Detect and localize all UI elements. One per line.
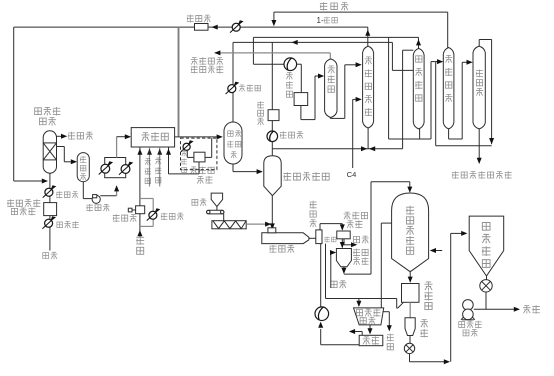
oil absorption column 油吸塔 xyxy=(473,46,485,129)
label 乙烯返回 xyxy=(191,58,198,65)
label 树脂气提器 vertical xyxy=(406,206,414,215)
label 加热器 xyxy=(57,222,63,228)
label 脱水分 xyxy=(344,212,351,219)
label 澄析器 vertical xyxy=(257,101,264,108)
wire low boiler bottoms xyxy=(419,129,421,139)
wire oil column bottoms discharge xyxy=(478,129,480,163)
storage hopper 贮槽 xyxy=(211,193,222,207)
ethylene column 乙烯塔 xyxy=(325,59,337,118)
fines separator 细粒分离器 xyxy=(354,308,384,325)
arrow into purifier xyxy=(212,25,218,30)
comonomer column 共聚单体塔 xyxy=(363,46,374,128)
preheater box with valves xyxy=(105,158,126,178)
screw conveyor with zigzag xyxy=(212,221,246,229)
dryer 干燥器 xyxy=(402,284,420,303)
valve in adsorber box xyxy=(183,143,190,150)
wire dryer to silo xyxy=(409,302,411,318)
label 乙烯塔 vertical xyxy=(328,66,335,74)
wire cooling water outlet xyxy=(57,135,66,137)
label 高位槽 vertical xyxy=(80,156,86,163)
label 高沸物塔 vertical xyxy=(445,55,452,63)
MP flash tank 中压闪蒸罐 xyxy=(224,122,242,164)
wire condenser to junction and LP flash top xyxy=(271,142,273,156)
wire branch into fines separator xyxy=(358,299,360,306)
wire clarifier to condenser xyxy=(271,121,273,131)
air blower 空气鼓风机 xyxy=(463,300,474,311)
low boiler column 低沸物塔 xyxy=(413,48,424,128)
wire branch x=388.6 down to low-boiler bottoms line xyxy=(388,37,390,139)
wire hot water feed xyxy=(330,253,332,289)
purifier box 净化器 xyxy=(195,24,209,31)
wire separator waste arrow xyxy=(343,239,345,245)
pump circle water xyxy=(315,307,329,321)
label 空气鼓 xyxy=(459,322,465,328)
label 废料 vertical xyxy=(387,334,394,342)
label 高沸点杂质排出 xyxy=(452,171,459,179)
wire oil column overhead return riser xyxy=(435,62,437,146)
label 环己烷 xyxy=(320,2,327,10)
dryer chute xyxy=(396,299,398,309)
label 再成 xyxy=(353,249,360,257)
wire solution feed from adsorber xyxy=(168,147,170,174)
label 反应器 xyxy=(141,133,149,141)
label 离器 xyxy=(360,318,366,324)
wire absorber to head tank xyxy=(57,146,65,148)
wire oil column overhead top xyxy=(478,40,480,47)
label 细粒 xyxy=(324,237,329,243)
label 油吸塔 vertical xyxy=(476,70,483,78)
label 冷却器 xyxy=(56,191,62,198)
resin stripper 树脂气提器 xyxy=(392,193,429,271)
wire fines line cutter to dryer chute xyxy=(325,244,327,299)
label 共聚单体塔 vertical xyxy=(365,57,372,65)
label 挤压机 xyxy=(269,245,276,253)
label 切料机 vertical xyxy=(310,201,317,209)
wire cooler to tank xyxy=(297,63,302,65)
label 包装 xyxy=(523,306,531,314)
extruder 挤压机 xyxy=(262,233,309,244)
compressor box 乙烯进料压缩机 xyxy=(44,203,57,216)
dewatering separator 脱水分离器 xyxy=(337,231,350,239)
rotary valve under blending xyxy=(480,280,492,292)
label 活化剂 vertical xyxy=(155,158,161,164)
valve condenser 冷凝器 on MP flash feed xyxy=(228,85,236,93)
label 浆槽 xyxy=(353,258,360,265)
label 乙烯 xyxy=(43,253,49,259)
wire head tank to feed pump xyxy=(82,182,84,199)
label 贮槽 xyxy=(192,199,198,205)
adsorber small box xyxy=(194,152,205,162)
wire activator feed xyxy=(159,147,161,186)
wire separator to reslurry tank xyxy=(341,239,343,248)
label 压缩机 xyxy=(11,208,17,214)
high boiler column 高沸物塔 xyxy=(443,48,454,129)
wire steam stub into stripper right xyxy=(431,250,442,252)
wire tank to ethylene column xyxy=(300,106,302,120)
wire low-boiler overhead line y=37.4 xyxy=(418,37,420,48)
label 冷却器 vertical xyxy=(286,72,293,79)
label 乙烯装置 xyxy=(191,66,198,74)
silo 料仓 xyxy=(405,318,415,336)
label 溶液吸 xyxy=(190,167,197,174)
wire branch to clarifier x=272.3 xyxy=(271,42,273,109)
label 氢气 vertical xyxy=(136,236,144,245)
compressor motor box xyxy=(128,208,132,212)
rotary valve circle-x xyxy=(404,343,414,353)
wire blending to valve xyxy=(486,276,488,280)
wire pump to preheater xyxy=(100,195,116,197)
wire ethylene column bottoms to comonomer column xyxy=(329,117,331,120)
label 附器 xyxy=(197,176,204,183)
wire left recycle downcomer x=13.7 xyxy=(13,27,15,181)
label 触媒器 vertical xyxy=(181,150,187,156)
water tank 水槽 xyxy=(359,335,383,345)
wire feeder to conveyor xyxy=(223,214,225,221)
valve heater 加热器 xyxy=(45,219,53,227)
svg-text:1-: 1- xyxy=(317,16,324,25)
reslurry tank 再成浆槽 xyxy=(336,249,351,267)
LP flash tank 低压闪蒸罐 xyxy=(264,156,281,195)
wire fines separator vapor to stripper xyxy=(380,223,382,308)
dashed box solution adsorber 溶液吸附器 xyxy=(181,138,217,170)
label 压缩机 xyxy=(113,214,120,222)
wire gray ethylene return line xyxy=(329,53,331,59)
wire catalyst feed xyxy=(149,147,151,186)
head tank 高位槽 xyxy=(77,153,89,182)
wire conveyor to extruder feed xyxy=(246,223,270,225)
label 冷却水 xyxy=(68,132,75,140)
absorber column 吸收冷却器 xyxy=(43,131,56,173)
wire silo valve to blending system xyxy=(409,354,411,362)
wire low boiler liquid return xyxy=(402,50,404,149)
wire reslurry to stripper top xyxy=(343,267,345,273)
cooler pump circle 冷却器 xyxy=(284,58,297,71)
label 掺合系统 vertical xyxy=(482,222,490,230)
wire preheater to reactor xyxy=(116,137,118,158)
wire high boiler bottoms to oil column xyxy=(448,129,450,139)
wire recycle into absorber feed pipe xyxy=(14,180,47,182)
compressor 压缩机 hydrogen xyxy=(136,206,145,214)
tank box under cooler xyxy=(294,93,308,106)
feed pump 进料泵 xyxy=(92,195,100,203)
wire fines separator to water tank xyxy=(369,325,371,334)
svg-text:C4: C4 xyxy=(347,170,357,179)
condenser pump circle 冷凝器 xyxy=(267,131,278,142)
label 水槽 xyxy=(363,337,370,345)
reactor 反应器 xyxy=(131,128,174,147)
rotary feeder capsule xyxy=(207,210,225,214)
wire extruder to cutter xyxy=(309,237,316,239)
label 却器 xyxy=(39,118,46,125)
wire adsorber internal lines xyxy=(186,150,188,157)
wire hydrogen line x=139.9 xyxy=(139,147,141,206)
wire reactor product line xyxy=(175,136,222,138)
label 风机 xyxy=(463,330,469,336)
label 低压闪蒸罐 xyxy=(283,172,291,181)
wire LP flash bottoms to extruder xyxy=(271,195,273,228)
label 催化剂 vertical xyxy=(145,159,151,165)
label 热水 xyxy=(331,281,337,287)
label 废料 next to separator xyxy=(353,236,359,242)
clarifier box 澄析器 xyxy=(268,110,279,121)
wire silo to rotary valve xyxy=(409,336,411,344)
wire C4 feed xyxy=(352,99,354,168)
valve cooler 冷却器 below absorber xyxy=(45,188,53,196)
label 细粒分 xyxy=(356,310,362,316)
wire absorber bottom pipe xyxy=(49,173,51,250)
wire cyclohexane line y=12 from high-boiler column top xyxy=(447,12,449,47)
label 低沸物塔 vertical xyxy=(416,56,422,62)
cutter box 切料机 xyxy=(316,230,322,244)
wire into MP flash tank top x=233 xyxy=(232,42,234,84)
wire MP flash bottoms to LP flash xyxy=(232,164,234,172)
label 离器 xyxy=(347,221,354,228)
label 乙烯进料 xyxy=(7,199,14,207)
label 料仓 vertical xyxy=(420,320,428,328)
wire water tank overflow xyxy=(361,332,363,336)
label 吸收冷 xyxy=(35,108,42,115)
label 进料泵 xyxy=(86,204,93,211)
wire stripper to dryer xyxy=(409,271,411,281)
label 冷凝器 lower xyxy=(280,131,287,138)
wire gray reactor offgas riser x=178.5 xyxy=(178,27,180,136)
wire hopper to feeder xyxy=(216,207,218,211)
wire packaging line xyxy=(485,292,487,309)
label 冷却器 bypass xyxy=(161,213,167,220)
wire fines separator waste xyxy=(383,311,389,313)
wire comonomer column overhead riser xyxy=(367,27,369,47)
label 干燥器 vertical xyxy=(424,282,432,291)
valve bypass cooler xyxy=(149,211,157,219)
wire comonomer column bottom riser xyxy=(367,128,369,149)
wire oil-column overhead recycle y=42.4 xyxy=(233,41,392,43)
valve on header xyxy=(232,23,240,31)
wire feed arrow into high boiler column xyxy=(431,61,442,63)
wire flash overhead junction line y=148.7 xyxy=(272,148,402,150)
wire cutter to dewatering separator xyxy=(319,224,321,230)
blending system 掺合系统 xyxy=(469,216,504,276)
label 净化器 xyxy=(187,15,194,23)
wire compressor bypass loop xyxy=(140,198,153,200)
label 中压闪蒸罐 xyxy=(228,131,233,136)
label 冷凝器 xyxy=(239,85,245,92)
wire recycle gas header y=27 xyxy=(14,26,195,28)
wire cutter water pump loop xyxy=(320,244,322,307)
